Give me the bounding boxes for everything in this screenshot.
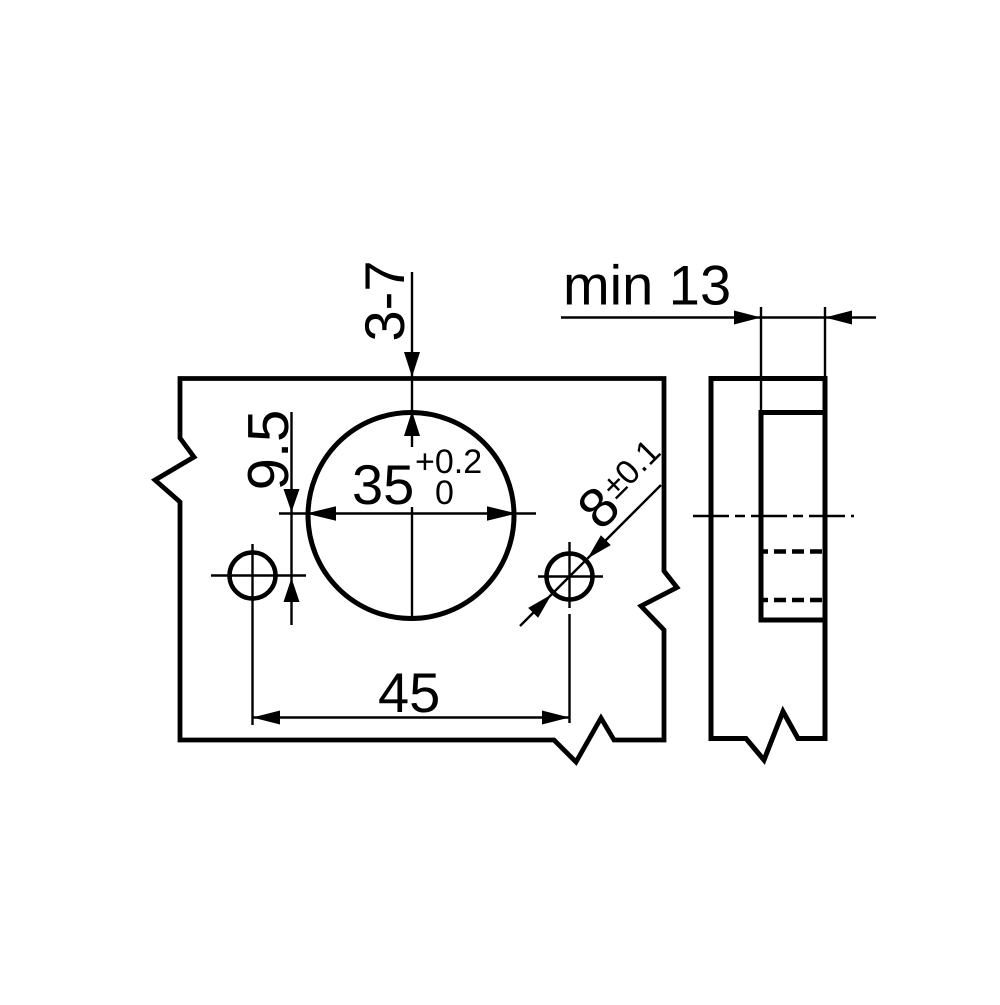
min 13 dimension line	[561, 316, 876, 318]
left screw hole circle	[230, 553, 276, 599]
cup hole circle 35mm	[308, 413, 514, 619]
right hole crosshair	[538, 542, 603, 723]
8 arrow lower pointing at hole	[528, 595, 551, 618]
9.5 extension line	[290, 412, 292, 625]
door panel front view outline with break zigzags	[155, 379, 677, 763]
horizontal diameter dimension line of cup	[279, 512, 536, 514]
hidden depth dashed line upper	[761, 549, 825, 554]
min13 arrow right-pointing	[734, 311, 761, 325]
9.5 arrow up	[284, 578, 300, 602]
vertical center line of cup (3-7 dimension line)	[411, 272, 413, 618]
cup hole section rectangle in side view	[761, 413, 825, 621]
right screw hole circle	[547, 554, 593, 600]
45 dimension line	[253, 716, 570, 718]
horizontal dash-dot centerline in side view	[693, 515, 854, 517]
8 dimension diagonal line lower tail	[520, 485, 661, 626]
arrow down at panel top edge (3-7)	[404, 352, 420, 377]
45 arrow left	[253, 711, 281, 725]
hidden depth dashed line lower	[761, 598, 825, 603]
svg-text:35: 35	[352, 453, 414, 516]
diameter arrow left	[306, 506, 336, 520]
svg-text:0: 0	[435, 474, 454, 512]
45 arrow right	[542, 711, 570, 725]
8 arrow upper pointing at hole	[588, 535, 611, 558]
svg-text:45: 45	[378, 661, 440, 724]
min13 extension line left	[760, 307, 762, 412]
side view panel outline with bottom break zigzag	[711, 379, 825, 761]
min13 arrow left-pointing	[825, 311, 852, 325]
svg-text:9.5: 9.5	[236, 410, 301, 491]
arrow up at cup top edge	[404, 411, 420, 436]
9.5 arrow down	[284, 489, 300, 512]
svg-text:3-7: 3-7	[353, 261, 416, 342]
left hole crosshair	[211, 544, 306, 725]
diameter arrow right	[487, 506, 517, 520]
label 8 plus/minus 0.1 rotated 45	[565, 426, 680, 541]
svg-text:min 13: min 13	[563, 254, 731, 317]
min13 extension line right	[824, 307, 826, 378]
